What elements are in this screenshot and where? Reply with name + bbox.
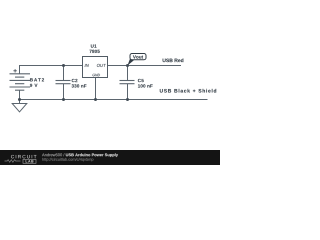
capacitor value 100 nF [138,84,153,87]
logo LAB [26,160,34,162]
capacitor C2 [56,81,71,84]
U1 name label [91,44,97,47]
U1 value label 7805 [90,50,100,53]
ground symbol [12,104,27,112]
watermark author [42,153,64,156]
node Vout flag text [133,55,143,58]
wire U1 OUT to USB Red [108,65,182,67]
battery value 9 V [30,84,38,87]
node junction battery-bus [18,98,21,101]
voltage regulator U1 7805 box [83,57,108,78]
node Vout flag box [130,54,146,60]
logo resistor squiggle [5,160,21,163]
capacitor C5 [120,81,135,84]
node junction C2-bus [62,98,65,101]
wire U1 GND to bus [95,78,97,100]
pin label GND [92,74,100,76]
watermark url [42,158,93,162]
wire battery negative to bus [19,90,21,99]
wire top rail battery to U1 IN [20,66,83,74]
logo CIRCUIT [11,155,36,158]
wire ground stub [19,100,21,104]
wire C5 bottom [127,84,129,100]
node junction Vout [126,64,129,67]
capacitor value 330 nF [72,84,87,87]
pin label IN [85,64,89,67]
wire C5 top [127,66,129,81]
wire C2 bottom [63,84,65,100]
battery label BAT2 [30,78,44,81]
node junction C2 top [62,64,65,67]
watermark bar [0,150,220,165]
node junction GND-bus [94,98,97,101]
capacitor label C5 [138,79,144,82]
pin label OUT [97,64,106,67]
watermark title [66,153,118,157]
wire C2 top [63,66,65,81]
node USB Red label [163,58,184,62]
wire bottom ground bus [20,99,208,101]
capacitor label C2 [72,79,78,82]
logo LAB box [23,159,36,163]
node Vout flag tail [128,59,134,66]
node USB Black + Shield label [160,89,216,93]
battery plus sign [13,69,16,72]
node junction C5-bus [126,98,129,101]
battery BAT2 [10,74,31,90]
